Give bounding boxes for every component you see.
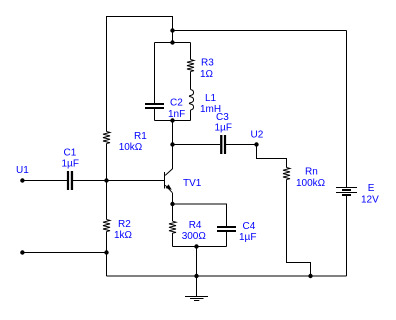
svg-text:U1: U1 — [16, 165, 29, 176]
wire center top vertical — [172, 16, 174, 31]
wire base — [107, 180, 165, 182]
wire tank bottom — [155, 120, 191, 122]
svg-text:1µF: 1µF — [239, 232, 256, 243]
svg-text:R2: R2 — [118, 219, 131, 230]
wire L1 bottom — [190, 110, 192, 121]
ground — [185, 296, 208, 301]
resistor R1 — [103, 132, 110, 144]
wire between R3 and L1 — [190, 72, 192, 90]
wire emitter node down to R4 — [172, 204, 174, 221]
wire bottom rail — [107, 275, 347, 277]
wire C2 branch upper — [154, 43, 156, 103]
svg-text:R3: R3 — [201, 58, 214, 69]
svg-text:1nF: 1nF — [168, 109, 185, 120]
wire collector — [165, 145, 172, 176]
svg-text:10kΩ: 10kΩ — [119, 142, 143, 153]
svg-text:C1: C1 — [64, 148, 77, 159]
wire Rn bottom to rail — [287, 180, 311, 277]
svg-text:TV1: TV1 — [183, 178, 202, 189]
svg-text:Rn: Rn — [305, 167, 318, 178]
junction tank bottom — [170, 118, 174, 122]
svg-text:300Ω: 300Ω — [182, 231, 207, 242]
wire ground drop upper — [196, 247, 198, 277]
wire supply branch to right rail — [173, 30, 347, 32]
wire top rail — [107, 16, 173, 18]
capacitor C1 — [67, 171, 73, 190]
node U2 terminal — [254, 142, 258, 146]
svg-text:R1: R1 — [134, 131, 147, 142]
junction supply branch — [170, 28, 174, 32]
svg-text:E: E — [368, 183, 375, 194]
transistor TV1 — [165, 172, 173, 193]
wire lower left stub — [22, 252, 106, 254]
wire C4 bottom — [226, 232, 228, 247]
svg-text:12V: 12V — [361, 195, 379, 206]
junction ground rail — [194, 274, 198, 278]
wire center tank to collector node — [172, 121, 174, 145]
wire U2 branch to Rn — [257, 145, 287, 168]
wire ground drop lower — [196, 276, 198, 296]
wire R3 branch upper — [190, 43, 192, 60]
wire C2 branch lower — [154, 109, 156, 121]
wire tank top — [155, 42, 191, 44]
wire center between junctions — [172, 31, 174, 43]
junction Rn rail — [308, 274, 312, 278]
node lower left terminal — [20, 250, 24, 254]
svg-text:C4: C4 — [243, 221, 256, 232]
svg-text:100kΩ: 100kΩ — [296, 178, 326, 189]
wire R4 bottom — [172, 233, 174, 246]
svg-text:C3: C3 — [216, 112, 229, 123]
resistor Rn — [283, 168, 290, 180]
capacitor C4 — [217, 226, 236, 232]
junction collector node — [170, 142, 174, 146]
junction base node — [104, 178, 108, 182]
svg-text:R4: R4 — [189, 220, 202, 231]
junction lower left — [104, 250, 108, 254]
svg-text:L1: L1 — [205, 93, 217, 104]
junction emitter node — [170, 202, 174, 206]
resistor R4 — [169, 221, 176, 233]
resistor R3 — [187, 60, 194, 72]
wire left rail lower — [106, 232, 108, 277]
wire left rail middle — [106, 144, 108, 220]
wire R4 C4 bottom row — [173, 246, 227, 248]
capacitor C3 — [220, 135, 226, 154]
node U1 terminal — [20, 178, 24, 182]
wire emitter node to C4 top — [173, 204, 227, 226]
wire C3 to U2 — [226, 144, 256, 146]
resistor R2 — [103, 220, 110, 232]
junction R4C4 bottom — [194, 244, 198, 248]
svg-text:C2: C2 — [170, 98, 183, 109]
svg-text:1µF: 1µF — [215, 123, 232, 134]
capacitor C2 — [145, 103, 164, 109]
wire emitter vertical — [172, 193, 174, 204]
wire U1 to C1 — [22, 180, 67, 182]
svg-text:1kΩ: 1kΩ — [114, 230, 133, 241]
wire right rail lower — [346, 196, 348, 276]
junction tank top — [170, 40, 174, 44]
wire right rail upper — [346, 31, 348, 188]
wire C1 to base node — [73, 180, 106, 182]
wire left rail upper — [106, 16, 108, 132]
battery E — [336, 187, 357, 196]
svg-text:1µF: 1µF — [62, 159, 79, 170]
svg-text:U2: U2 — [251, 130, 264, 141]
wire collector node to C3 — [173, 144, 221, 146]
inductor L1 — [189, 90, 193, 111]
svg-text:1Ω: 1Ω — [200, 69, 214, 80]
